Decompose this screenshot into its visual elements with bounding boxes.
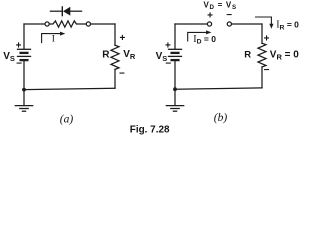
svg-text:I: I xyxy=(52,35,55,45)
svg-text:(a): (a) xyxy=(60,114,74,126)
svg-text:Fig. 7.28: Fig. 7.28 xyxy=(130,124,170,135)
svg-text:+: + xyxy=(165,40,171,51)
diode D (circuit a, shown above branch) xyxy=(50,7,81,16)
svg-text:−: − xyxy=(226,10,232,21)
svg-text:+: + xyxy=(119,33,125,44)
junction dot (a) xyxy=(22,88,26,92)
battery VS (a) xyxy=(18,49,31,60)
svg-text:−: − xyxy=(119,68,125,79)
svg-text:R: R xyxy=(102,49,110,60)
wire (b) top-left: corner to left node xyxy=(175,23,207,25)
wire (b) left vertical bottom xyxy=(174,61,176,89)
current arrow ID=0 (b) xyxy=(188,30,212,41)
wire (a) top-left: corner to left node xyxy=(24,23,45,25)
wire (a) right vertical top (corner to resistor R) xyxy=(114,24,116,45)
wire (b) right vertical top xyxy=(261,24,263,43)
svg-text:+: + xyxy=(264,33,270,44)
wire (b) bottom xyxy=(175,88,262,89)
svg-text:+: + xyxy=(16,40,22,51)
node: left terminal circle (a) xyxy=(45,22,49,26)
wire (b) left vertical top (corner to battery) xyxy=(174,24,176,49)
wire (a) left vertical bottom (battery to bottom wire) xyxy=(23,61,25,90)
svg-text:−: − xyxy=(16,58,22,69)
svg-text:VR = 0: VR = 0 xyxy=(270,50,299,62)
resistor (diode model) horizontal zigzag (a) xyxy=(49,21,86,27)
wire (b) right vertical bottom xyxy=(261,67,263,88)
resistor R (b) vertical zigzag xyxy=(258,43,266,67)
wire (a) bottom xyxy=(24,88,115,89)
current arrow I (a) xyxy=(42,32,66,43)
wire (b) top-right: node to corner xyxy=(232,23,263,25)
wire (a) left vertical top (corner to battery) xyxy=(23,24,25,49)
svg-text:R: R xyxy=(244,50,251,61)
ground (b) xyxy=(166,89,183,111)
resistor R (a) vertical zigzag xyxy=(111,45,119,69)
wire (a) top-right: node to corner xyxy=(91,23,116,25)
svg-text:+: + xyxy=(207,10,213,21)
junction dot (b) xyxy=(173,87,177,91)
node: right gap terminal (b) xyxy=(227,22,231,26)
node: right terminal circle (a) xyxy=(86,22,90,26)
current arrow IR=0 (b) xyxy=(256,17,274,29)
wire (a) right vertical bottom xyxy=(114,69,116,88)
battery VS (b) xyxy=(169,49,182,60)
svg-text:(b): (b) xyxy=(214,112,228,124)
ground (a) xyxy=(15,90,32,112)
node: left gap terminal (b) xyxy=(207,22,211,26)
svg-text:−: − xyxy=(264,65,270,76)
svg-text:−: − xyxy=(165,58,171,69)
